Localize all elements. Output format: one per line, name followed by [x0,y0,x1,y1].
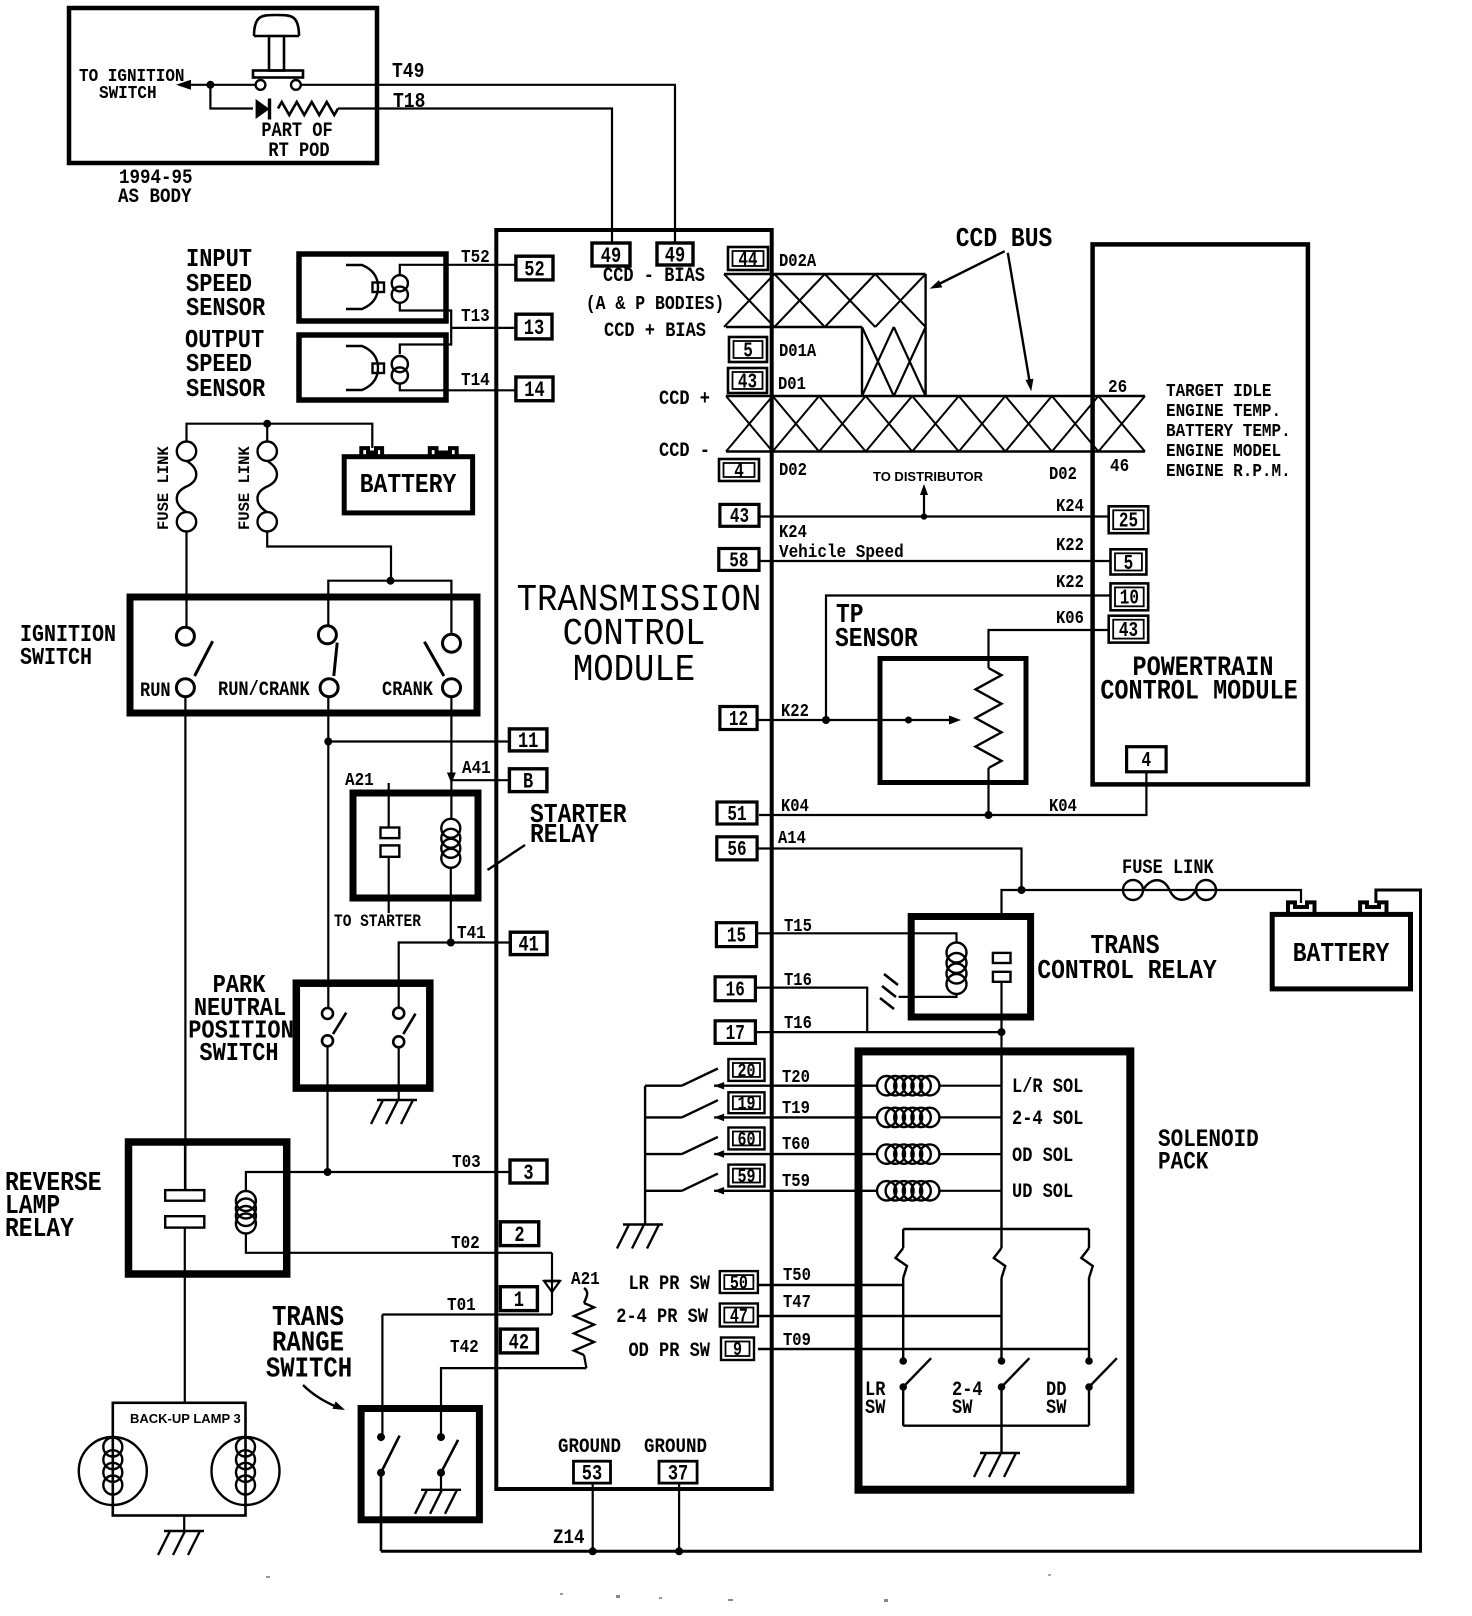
svg-text:43: 43 [738,371,757,395]
label TRANS CONTROL RELAY [1037,930,1217,986]
svg-text:9: 9 [733,1341,742,1362]
pin 1 [500,1287,537,1311]
wire branch down to diode [210,85,253,109]
fuse link F3 [1123,880,1143,900]
diode CR1 in RT POD [256,99,270,120]
PCM pin 5 [1111,549,1147,574]
ground under back-up lamp [164,1530,204,1532]
trans control relay coil K3 [947,943,967,963]
wire Z14 ground bus [381,890,1421,1551]
svg-text:26: 26 [1108,377,1127,399]
svg-text:T41: T41 [457,923,486,945]
battery B2 [1272,902,1410,989]
wire T01 from trans range switch to diode [382,1313,552,1315]
trans range switch left contact [377,1433,400,1477]
wire coil to T41 junction [450,868,452,943]
pin 60 [728,1128,764,1150]
svg-text:GROUND: GROUND [558,1435,621,1459]
wire T41 to pin 41 [399,943,511,1008]
label IGNITION SWITCH [20,622,116,672]
wire T16 pin16 loop [755,988,867,1033]
svg-text:FUSE LINK: FUSE LINK [155,446,173,530]
wire lamp to ground [183,1516,185,1532]
wire return rail to ground [1000,1426,1002,1453]
svg-text:A14: A14 [778,829,806,849]
svg-text:11: 11 [518,729,538,754]
wire T59 to UD solenoid [714,1190,877,1192]
label TP SENSOR [835,599,919,654]
junction T03/PNP [324,1168,332,1176]
svg-text:10: 10 [1120,587,1139,611]
pin 3 [510,1160,547,1183]
svg-text:SENSOR: SENSOR [835,623,919,654]
pin 14 [516,377,553,401]
wire coil to T02 [246,1234,552,1253]
pin 13 [516,314,552,339]
svg-text:2: 2 [514,1223,524,1248]
svg-text:13: 13 [524,316,544,341]
svg-text:UD SOL: UD SOL [1012,1181,1073,1204]
wire K24 to PCM pin 25 [759,515,1109,517]
svg-text:SWITCH: SWITCH [20,645,92,672]
pin 51 [717,802,757,824]
svg-text:42: 42 [509,1330,529,1355]
svg-text:SW: SW [865,1397,886,1420]
svg-text:K06: K06 [1056,609,1084,629]
svg-text:50: 50 [730,1274,748,1295]
svg-text:T15: T15 [784,917,812,937]
svg-text:LR PR SW: LR PR SW [628,1273,710,1296]
driver switch Q4 (T59) [645,1174,724,1195]
svg-text:K24: K24 [1056,497,1084,517]
svg-text:A41: A41 [462,758,491,780]
wire to pin B (A41) [451,779,509,781]
svg-text:CCD - BIAS: CCD - BIAS [603,265,705,288]
pin 9 [721,1338,754,1361]
reverse relay contact bars [165,1142,204,1228]
pressure switch return rail [903,1424,1089,1426]
svg-text:4: 4 [1142,749,1152,773]
wire pin 37 to Z14 [678,1483,680,1551]
svg-text:51: 51 [727,803,746,827]
svg-text:CONTROL RELAY: CONTROL RELAY [1037,955,1217,986]
wire T60 to OD solenoid [714,1153,877,1155]
wire T01 down to trans range switch [381,1315,383,1438]
distributor branch arrow [920,484,928,520]
svg-text:RELAY: RELAY [530,819,600,850]
svg-text:41: 41 [518,933,538,958]
reverse lamp relay box [129,1142,287,1274]
pin 15 [716,923,756,947]
wire relay contact to solenoid feed [1000,982,1002,1052]
wire K06 PCM pin 43 to TP sensor [989,630,1109,668]
svg-text:53: 53 [582,1462,602,1487]
junction A14/fuse wire [1018,886,1026,894]
wire T19 to 2-4 solenoid [714,1116,877,1118]
PCM pin 4 [1127,747,1167,772]
svg-text:A21: A21 [571,1269,600,1291]
svg-text:K22: K22 [1056,536,1084,556]
svg-text:RELAY: RELAY [5,1213,75,1244]
wire to pin 11 [328,740,509,742]
ground inside trans range switch [421,1489,461,1491]
svg-text:CONTROL MODULE: CONTROL MODULE [1100,676,1297,707]
svg-text:TO STARTER: TO STARTER [334,912,421,931]
svg-text:ENGINE TEMP.: ENGINE TEMP. [1166,401,1281,423]
input speed sensor box [299,254,446,321]
TCM solenoid driver bus [644,1086,646,1224]
pin 16 [715,977,755,1001]
pin 11 [509,729,547,751]
arrow to ignition switch [176,80,191,90]
pin 37 [659,1461,697,1483]
pin 58 (vehicle speed) [719,549,759,571]
input speed sensor coil L1 [392,275,408,303]
svg-text:T52: T52 [461,247,490,269]
svg-text:T18: T18 [393,90,425,114]
label TO IGNITION SWITCH [79,66,185,105]
svg-text:K22: K22 [1056,573,1084,593]
TP wiper junction [905,717,912,724]
pin 12 (K22) [720,707,757,730]
CCD BUS pointer 2 [1008,253,1034,391]
ground under PNP switch [377,1099,417,1101]
svg-text:60: 60 [737,1130,755,1151]
scan noise specks [266,1574,1051,1602]
ignition switch RUN/CRANK contacts [318,626,338,697]
svg-text:T60: T60 [782,1135,810,1155]
CCD bus lower band (CCD+ / CCD-) [726,396,1145,452]
svg-text:2-4 SOL: 2-4 SOL [1012,1108,1083,1131]
ignition switch RUN contacts [176,627,212,697]
pin 20 [728,1059,764,1081]
resistor A21 pull [574,1288,594,1368]
pointer to trans range switch [303,1385,345,1410]
svg-text:59: 59 [737,1167,755,1188]
svg-text:T03: T03 [452,1152,481,1174]
label LR SW [865,1379,886,1420]
wire left contact to Z14 [380,1473,383,1552]
wire pin 53 to Z14 [592,1483,594,1551]
label REVERSE LAMP RELAY [5,1167,102,1244]
svg-text:12: 12 [729,708,748,732]
svg-text:T01: T01 [447,1295,476,1317]
2-4 pressure switch branch [994,1229,1006,1361]
svg-text:CCD +: CCD + [659,388,710,411]
svg-text:TO DISTRIBUTOR: TO DISTRIBUTOR [873,469,984,484]
svg-text:BATTERY: BATTERY [360,469,457,500]
svg-text:(A & P BODIES): (A & P BODIES) [586,294,725,316]
svg-text:52: 52 [524,257,544,282]
svg-text:TARGET IDLE: TARGET IDLE [1166,381,1272,403]
wire battery+ to fuse links [187,424,373,448]
PNP left contacts [322,1008,346,1046]
ignition switch box [130,597,477,713]
wire T50 to LR pressure switch [758,1284,903,1287]
label INPUT SPEED SENSOR [186,246,266,324]
wire RUN to reverse lamp relay [184,697,186,1190]
pin 52 [516,256,553,280]
PNP right contacts [393,1008,415,1048]
svg-text:D01: D01 [778,375,806,395]
svg-text:25: 25 [1119,510,1138,534]
arrow at A41 junction [447,773,456,784]
svg-text:19: 19 [737,1095,755,1116]
svg-text:ENGINE MODEL: ENGINE MODEL [1166,441,1281,463]
junction at fuse link 2 [263,420,271,428]
svg-text:RUN: RUN [140,680,171,703]
pin 59 [728,1165,764,1187]
svg-text:43: 43 [730,505,749,529]
wire K04 PCM pin 4 to TCM pin 51 [759,772,1146,815]
svg-text:T50: T50 [783,1266,811,1286]
junction node in RT POD [206,81,214,89]
PCM signals list [1166,381,1291,483]
back-up lamp bulb 1 [79,1437,147,1505]
wire T52 sensor to pin 52 [400,265,516,275]
pin 4 (D02) [719,459,759,481]
label TRANSMISSION CONTROL MODULE [517,578,762,691]
wire bar2 to back-up lamp [184,1228,186,1403]
wire T18 [338,109,612,244]
label OUTPUT SPEED SENSOR [185,327,266,405]
pin 44 (D02A) [728,247,768,270]
input speed sensor pickup core [346,265,384,309]
label POWERTRAIN CONTROL MODULE [1100,652,1297,707]
pin 17 [715,1021,755,1044]
svg-text:B: B [523,770,533,795]
label STARTER RELAY [530,799,627,850]
LR pressure switch SW1 [899,1357,931,1426]
svg-text:ENGINE R.P.M.: ENGINE R.P.M. [1166,461,1291,483]
svg-text:MODULE: MODULE [573,648,695,691]
wire TP resistor to K04 [987,768,989,815]
junction pin 11 tap [324,738,332,746]
svg-text:44: 44 [738,249,757,273]
svg-text:D02: D02 [779,461,807,481]
svg-text:L/R SOL: L/R SOL [1012,1076,1083,1099]
svg-text:RT POD: RT POD [268,140,329,163]
svg-text:5: 5 [1124,552,1134,576]
pin 50 [720,1271,758,1293]
svg-text:OD SOL: OD SOL [1012,1145,1073,1168]
svg-text:FUSE LINK: FUSE LINK [1122,857,1215,880]
svg-text:CCD -: CCD - [659,440,710,463]
wire T13 shared return to pin 13 [400,303,516,354]
wire RUN/CRANK down to PNP switch [327,697,329,1008]
RT POD box (1994-95 AS BODY) [69,8,377,163]
transmission control module U1 box [496,230,771,1489]
resistor in RT POD [278,102,338,115]
svg-text:CCD BUS: CCD BUS [956,223,1053,254]
pin 42 [500,1329,537,1353]
wire L/R coil to feed [939,1085,1001,1087]
junction K22 vertical [822,716,830,724]
svg-text:A21: A21 [345,770,374,792]
pin B [509,769,547,792]
junction feed node [387,577,395,585]
label TRANS RANGE SWITCH [266,1301,352,1385]
2-4 solenoid coil [877,1108,896,1127]
TP wiper arrow [949,716,961,725]
wire UD coil to feed [939,1190,1001,1192]
wire T02 through diode to T01 [551,1253,553,1315]
wire CRANK down to starter relay coil [450,697,452,819]
ignition switch CRANK contacts [424,634,460,697]
wire T16 pin17 to relay output [755,1031,1001,1033]
label 2-4 SW [952,1379,983,1420]
svg-text:AS BODY: AS BODY [118,185,192,209]
label SOLENOID PACK [1158,1126,1259,1177]
svg-text:D02: D02 [1049,465,1077,485]
svg-text:SWITCH: SWITCH [99,83,157,105]
wire 2-4 coil to feed [939,1116,1001,1118]
wire A14 to relay feed [757,849,1021,891]
TP sensor resistor R2 [976,668,1002,768]
svg-text:K04: K04 [781,797,809,817]
svg-text:1: 1 [514,1288,524,1313]
OD pressure switch branch [1081,1229,1093,1361]
starter relay contact stub [388,783,390,828]
svg-text:T47: T47 [783,1293,811,1313]
back-up lamp bulb 2 [212,1437,280,1505]
label PART OF RT POD [261,120,332,163]
pin 49 (T49) [657,243,693,265]
svg-text:PACK: PACK [1158,1148,1209,1176]
powertrain control module U2 box [1093,244,1308,784]
svg-text:FUSE LINK: FUSE LINK [236,446,254,530]
push-button switch S1 (part of RT POD) [253,15,303,90]
wire from arrow to switch contacts [190,84,256,86]
svg-text:47: 47 [730,1307,748,1328]
wire PNP right to ground [398,1047,400,1100]
label 1994-95 AS BODY [118,166,192,209]
back-up lamp box [113,1403,246,1516]
wire T20 to L/R solenoid [714,1084,877,1086]
svg-text:37: 37 [668,1462,688,1487]
TP sensor box [880,659,1026,783]
junction relay output [998,1028,1006,1036]
ground for driver bus [623,1223,663,1225]
svg-text:CCD + BIAS: CCD + BIAS [604,320,706,343]
label OD SW [1046,1379,1067,1420]
driver switch Q1 (T20) [645,1069,724,1090]
wire T14 to pin 14 [400,384,516,391]
solenoid feed bus [1000,1051,1002,1229]
trans range switch right contact [437,1433,458,1477]
L/R solenoid coil [877,1076,896,1095]
driver switch Q2 (T19) [645,1100,724,1121]
wire feed to RUN/CRANK and CRANK [328,581,451,635]
output speed sensor box [299,335,446,400]
svg-text:17: 17 [726,1022,745,1046]
svg-text:T59: T59 [782,1172,810,1192]
svg-text:56: 56 [727,838,746,862]
junction T41 [447,939,455,947]
svg-text:BATTERY TEMP.: BATTERY TEMP. [1166,421,1291,443]
OD solenoid coil [877,1144,896,1163]
svg-text:SENSOR: SENSOR [186,295,266,324]
pointer to starter relay [488,845,526,870]
svg-text:46: 46 [1110,456,1129,478]
svg-text:T49: T49 [392,60,424,84]
wire right contact to internal ground [440,1473,442,1490]
CCD BUS pointer 1 [930,251,1005,289]
svg-text:CRANK: CRANK [382,679,434,702]
wire T47 to 2-4 pressure switch [758,1315,1002,1317]
wire K22 PCM pin 10 to TP feed [826,596,1111,721]
wire vehicle speed to PCM pin 5 [759,560,1111,562]
wire OD coil to feed [939,1153,1001,1155]
pin 53 [574,1461,611,1483]
svg-text:T42: T42 [450,1337,479,1359]
svg-text:16: 16 [726,979,745,1003]
svg-text:3: 3 [523,1161,533,1186]
svg-text:4: 4 [734,460,744,484]
diode CR2 (A21) [544,1281,560,1292]
LR pressure switch branch [896,1229,908,1361]
pin 2 [500,1222,538,1246]
wire fuse1 to ignition switch RUN [185,532,187,628]
PCM pin 43 [1109,616,1149,643]
ground in solenoid pack [980,1452,1020,1454]
trans control relay box [911,917,1030,1018]
svg-text:2-4 PR SW: 2-4 PR SW [616,1306,709,1329]
svg-text:SWITCH: SWITCH [266,1353,352,1385]
svg-text:SW: SW [1046,1397,1067,1420]
pin 56 (A14) [717,837,757,860]
wire relay feed / fuse link / battery [1002,890,1302,917]
svg-text:K24: K24 [779,523,807,543]
svg-text:58: 58 [729,550,748,574]
wire PNP left to T03 junction [326,1046,328,1172]
driver switch Q3 (T60) [645,1137,724,1158]
junction 37/Z14 [675,1547,683,1555]
svg-text:BACK-UP LAMP 3: BACK-UP LAMP 3 [130,1411,241,1426]
pressure switch supply rail [903,1228,1089,1231]
svg-text:D01A: D01A [779,342,817,362]
pin 49 (T18) [592,243,630,266]
2-4 pressure switch SW2 [998,1357,1030,1426]
pin 43 (D01) [728,368,767,393]
wire coil to T03 [246,1172,510,1191]
svg-text:D02A: D02A [779,252,817,272]
pin 41 [510,932,547,954]
CCD bus upper band [724,274,926,396]
svg-text:14: 14 [524,378,545,403]
junction 53/Z14 [589,1547,597,1555]
battery B1 [344,448,472,513]
wire T42 from trans range switch to resistor [441,1368,586,1437]
output speed sensor pickup core [346,346,384,390]
svg-text:T14: T14 [461,370,490,392]
pin 43 (K24) [720,504,759,526]
svg-text:RUN/CRANK: RUN/CRANK [218,679,311,702]
svg-text:SWITCH: SWITCH [199,1040,278,1069]
UD solenoid coil [877,1181,896,1200]
park neutral position switch box [296,983,430,1088]
PCM pin 10 [1111,583,1149,610]
svg-text:5: 5 [743,340,753,364]
wire contact to starter [388,857,390,913]
svg-text:K04: K04 [1049,797,1077,817]
svg-text:20: 20 [737,1062,755,1083]
wire T09 to OD pressure switch [758,1348,1089,1350]
ground at trans control relay [880,974,898,1009]
pin 5 (D01A) [729,337,767,362]
svg-text:GROUND: GROUND [644,1435,707,1459]
svg-text:SENSOR: SENSOR [186,376,266,405]
